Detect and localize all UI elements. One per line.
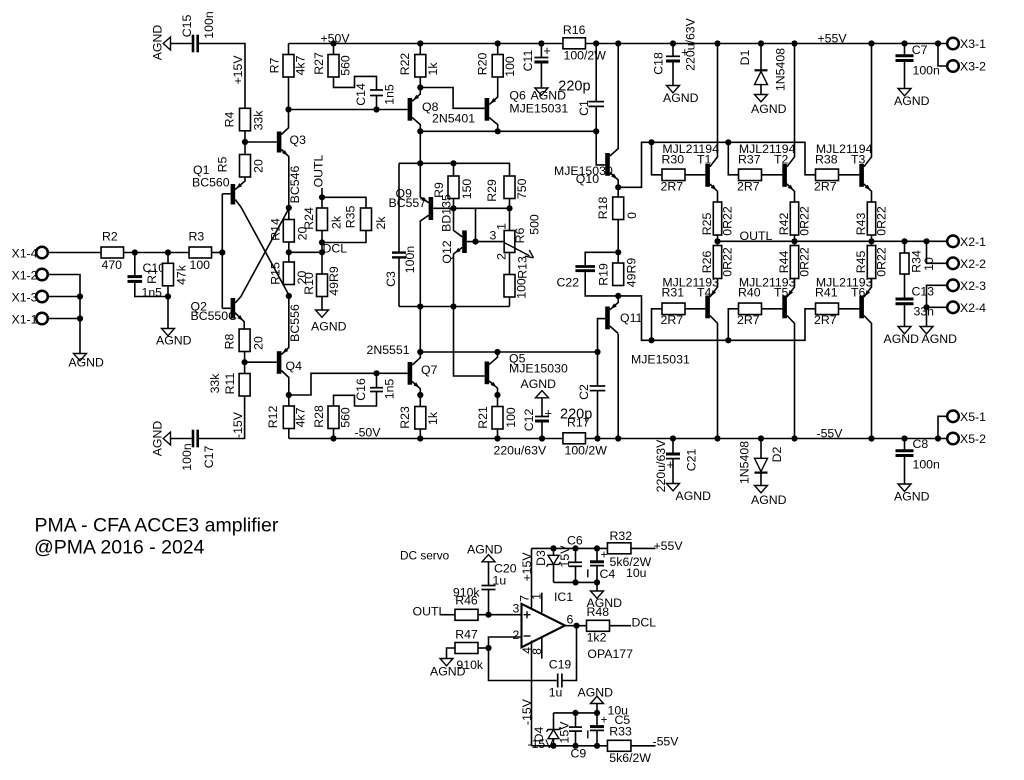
svg-text:Q11: Q11 [620,311,642,325]
junction output node [573,623,579,629]
resistor R46 [455,609,478,620]
wire upper base feed [618,142,815,187]
junction on bottom rail [494,435,500,441]
resistor R13 [504,275,515,298]
svg-text:R12: R12 [266,406,280,429]
resistor R12 [283,406,294,429]
svg-text:C4: C4 [600,567,616,581]
junction on top rail [330,40,336,46]
transistor Q9 [429,197,434,220]
ground AGND (C8) [898,484,911,491]
junction Q12 base node [472,239,478,245]
junction Q10 emitter node [615,184,621,190]
diode D2 [760,439,762,459]
svg-text:OPA177: OPA177 [587,647,633,661]
wire R34 to C13 [904,274,906,298]
svg-text:-50V: -50V [355,426,382,440]
junction VAS Q11 branch [594,349,600,355]
junction on top rail [714,40,720,46]
junction C5 top [594,710,600,716]
wire X2-4 branch [927,307,948,326]
svg-text:R21: R21 [476,406,490,429]
transistor T6 [859,296,864,319]
svg-text:X2-2: X2-2 [960,257,986,271]
wire +15V node [532,547,608,549]
wire lower base feed [618,296,815,340]
svg-text:500: 500 [527,214,541,235]
wire C21 to AGND [672,459,674,484]
svg-text:1n5: 1n5 [383,379,397,400]
svg-text:Q6: Q6 [509,89,526,103]
svg-text:1: 1 [494,223,508,230]
ground AGND (C18) [667,86,680,93]
junction servo + node [485,612,491,618]
svg-text:910k: 910k [456,658,484,672]
junction bias bottom Q12 [450,303,456,309]
transistor T3 [859,164,864,187]
svg-text:MJE15030: MJE15030 [509,362,568,376]
wire X2-2 branch [927,241,948,263]
svg-text:10u: 10u [608,703,629,717]
transistor Q5 [485,362,490,385]
svg-text:0R22: 0R22 [874,206,888,236]
transistor T5 [782,296,787,319]
svg-text:100n: 100n [913,458,941,472]
junction bias rail Q9 [417,160,423,166]
svg-text:750: 750 [515,178,529,199]
wire +55V rail right segment [585,43,947,45]
junction X2-4 tie [923,304,929,310]
svg-text:C21: C21 [684,449,698,472]
svg-text:R24: R24 [302,207,316,230]
wire Q8/Q6 emitter bus [420,130,596,132]
connector X2-1 [947,236,959,248]
junction C9 top [572,710,578,716]
junction -15V node [572,743,578,749]
junction C16 tap [373,370,379,376]
wire Q11 collector to rail [617,334,619,439]
wire VAS node bus [420,351,597,353]
ground AGND (R10) [316,310,329,317]
svg-text:AGND: AGND [521,377,557,391]
svg-text:2: 2 [494,253,508,260]
svg-text:100/2W: 100/2W [565,444,608,458]
resistor R30 (base) [662,169,685,181]
svg-text:1N5408: 1N5408 [773,48,787,91]
junction on top rail [417,40,423,46]
wire C7 to AGND [904,61,906,89]
svg-text:2R7: 2R7 [737,180,760,194]
svg-text:R35: R35 [343,206,357,229]
junction on bottom rail [330,435,336,441]
junction R7/Q3 collector node [285,106,291,112]
wire +50V rail left segment [289,43,564,45]
wire X1-4 to R2 [48,252,102,254]
junction emitter bus Q8 [417,128,423,134]
junction +15V node [594,545,600,551]
svg-text:BC550C: BC550C [191,309,238,323]
ground AGND (D2) [755,486,768,493]
junction C10 tap [132,249,138,255]
junction R14 top [286,205,292,211]
wire Q12 base to R6 wiper [476,241,504,243]
junction gnd bus X1-1 [77,315,83,321]
capacitor C6 [575,548,577,561]
resistor R15 [283,262,294,285]
svg-text:C8: C8 [913,437,929,451]
transistor Q12 [462,230,467,253]
junction Q11 emitter node [615,293,621,299]
svg-text:X1-1: X1-1 [12,312,38,326]
svg-text:+15V: +15V [520,552,534,582]
junction R1 tap [165,249,171,255]
wire AGND to C15 [171,43,194,45]
svg-text:0R22: 0R22 [797,247,811,277]
wire Q5 base [454,307,485,377]
resistor R48 [587,620,610,631]
svg-text:100/2W: 100/2W [564,49,607,63]
svg-text:AGND: AGND [663,91,699,105]
svg-text:0: 0 [625,212,639,219]
svg-text:MJE15031: MJE15031 [631,353,690,367]
transistor Q8 [408,98,413,121]
resistor R11 [239,374,250,397]
junction emitter bus Q6 [495,128,501,134]
svg-text:R13: R13 [515,256,529,279]
wire R48 to DCL [610,625,632,627]
connector X1-2 [36,269,48,281]
wire R30 to T1 base [685,174,705,176]
junction Q4 base node [242,359,248,365]
svg-text:560: 560 [338,55,352,76]
wire R40 to T5 base [762,308,783,310]
resistor R25 (emitter) [713,202,721,235]
wire R46 to op-amp + [478,614,521,616]
svg-text:T4: T4 [697,285,712,299]
svg-text:BC556: BC556 [288,304,302,342]
junction bias rail R9 [450,160,456,166]
svg-text:X3-1: X3-1 [960,37,986,51]
svg-text:Q10: Q10 [576,172,599,186]
svg-text:47k: 47k [174,264,188,285]
resistor R41 (base) [816,303,839,315]
svg-text:R46: R46 [455,594,478,608]
svg-text:15V: 15V [557,721,571,744]
junction DCL node [319,239,325,245]
svg-text:X1-4: X1-4 [12,246,38,260]
junction OUTL rail [901,238,907,244]
svg-text:100: 100 [514,278,528,299]
wire R41 to T6 base [839,308,860,310]
wire X5-1 branch [938,416,947,438]
junction DCL tee [319,249,325,255]
capacitor C13 [896,298,914,301]
transistor Q6 [485,98,490,121]
svg-text:R25: R25 [700,213,714,236]
wire C3 branch [398,163,400,252]
ground AGND (C7) [898,89,911,96]
resistor R47 [455,643,478,654]
svg-text:R16: R16 [563,23,586,37]
junction input node [219,249,225,255]
svg-text:Q7: Q7 [421,363,438,377]
svg-text:C17: C17 [202,446,216,469]
wire R27 to C14 [334,76,377,90]
wire C17 to AGND [171,438,194,440]
op-amp pin 4 [531,641,533,746]
svg-text:AGND: AGND [311,320,347,334]
resistor R18 [613,197,624,220]
op-amp plus sign [524,611,531,618]
wire C13 to AGND [904,304,906,327]
svg-text:1u: 1u [493,574,507,588]
svg-text:2N5551: 2N5551 [367,343,410,357]
capacitor C1 [595,44,597,102]
wire R1 bottom to AGND [167,297,169,329]
junction on top rail [615,40,621,46]
transistor Q3 [277,132,282,153]
junction on top rail [495,40,501,46]
svg-text:R20: R20 [475,53,489,76]
svg-text:R29: R29 [485,179,499,202]
wire -55V rail [585,438,947,440]
connector X1-4 [36,247,48,259]
junction -15V node [550,743,556,749]
svg-text:150: 150 [460,179,474,200]
connector X3-1 [947,38,959,50]
svg-text:@PMA 2016 - 2024: @PMA 2016 - 2024 [34,537,205,559]
wire C20 to R46 node [488,590,490,615]
svg-text:R23: R23 [398,406,412,429]
svg-text:1u: 1u [549,686,563,700]
junction on top rail [935,40,941,46]
wire R14-R15 [288,242,290,262]
wire C4 to AGND [596,582,598,591]
svg-text:4k7: 4k7 [293,407,307,427]
wire -15V node [532,745,608,747]
transistor Q4 [277,351,282,374]
svg-text:R32: R32 [610,529,633,543]
wire X1-3 stub [48,296,80,298]
resistor R37 (base) [739,169,762,181]
svg-text:20: 20 [251,159,265,173]
svg-text:C15: C15 [180,15,194,38]
connector X2-2 [947,258,959,270]
wire X2-3 branch [927,285,948,307]
svg-text:R47: R47 [455,627,478,641]
resistor R29 [504,176,515,199]
resistor R24 [317,208,328,231]
svg-text:R26: R26 [700,251,714,274]
resistor R32 [607,543,631,554]
junction OUTL rail [868,238,874,244]
capacitor C9 [575,713,577,727]
svg-text:100n: 100n [180,443,194,471]
junction R29 / R6 top [506,205,512,211]
svg-text:T2: T2 [774,152,789,166]
svg-text:2R7: 2R7 [737,313,760,327]
wire R3 to input node [212,252,223,254]
resistor R42 (emitter) [790,202,798,235]
wire C15 to R4 (+15V) [198,44,245,109]
svg-text:PMA - CFA ACCE3 amplifier: PMA - CFA ACCE3 amplifier [35,515,279,537]
junction on bottom rail [417,435,423,441]
svg-text:C14: C14 [354,83,368,106]
svg-text:R4: R4 [222,111,236,127]
transistor T4 [705,296,710,319]
junction C6 bottom [572,579,578,585]
svg-text:BC560: BC560 [192,176,230,190]
resistor R23 [415,407,426,430]
svg-text:33k: 33k [251,110,265,131]
svg-text:R7: R7 [267,57,281,73]
junction on top rail [791,40,797,46]
wire +15V bottom tie [554,581,598,583]
svg-text:C6: C6 [567,534,583,548]
svg-text:220u/63V: 220u/63V [654,439,668,492]
wire R24 bottom [321,231,323,253]
wire bias rail to VAS node [419,307,421,353]
svg-text:R22: R22 [398,53,412,76]
svg-text:0R22: 0R22 [797,206,811,236]
transistor Q11 [605,307,610,330]
svg-text:D2: D2 [770,446,784,462]
zener D4 [553,739,555,746]
svg-text:+: + [543,43,551,58]
resistor R28 [328,406,339,429]
resistor R2 [101,247,124,258]
wire R47 to inverting node [478,647,489,649]
svg-text:+15V: +15V [231,55,245,85]
junction on bottom rail [868,435,874,441]
junction R1/C10 bottom [165,293,171,299]
svg-text:R18: R18 [596,197,610,220]
svg-text:R45: R45 [854,251,868,274]
op-amp pin 7 [531,548,533,609]
wire Q8 collector down [419,131,421,163]
svg-text:X2-1: X2-1 [960,235,986,249]
junction servo - node [485,645,491,651]
connector X5-2 [947,433,959,445]
svg-text:20: 20 [251,336,265,350]
wire OUTL to R46 [441,614,456,616]
op-amp minus sign [524,635,531,637]
svg-text:6: 6 [567,613,574,627]
resistor R31 (base) [662,303,685,315]
wire R7 bottom to node [288,77,290,110]
svg-text:+55V: +55V [654,539,684,553]
svg-text:R42: R42 [777,213,791,236]
svg-text:T3: T3 [851,152,866,166]
wire AGND to R47 [447,648,456,659]
junction on bottom rail [594,435,600,441]
svg-text:X3-2: X3-2 [960,60,986,74]
svg-text:1n5: 1n5 [383,84,397,105]
svg-text:C12: C12 [522,409,536,432]
wire C5 to AGND [596,704,598,713]
wire inverting node to op-amp [489,637,522,648]
op-amp IC1 [522,604,566,648]
wire X1-1 stub [48,318,80,320]
junction on top rail [758,40,764,46]
wire R31 to T4 base [685,308,705,310]
ground AGND (X1) [74,354,87,361]
resistor R35 [361,208,372,231]
junction on bottom rail [935,435,941,441]
wire C14 to Q8 base wire [376,96,378,110]
svg-text:2R7: 2R7 [814,180,837,194]
wire -50V rail [289,438,563,440]
wire R8 to R11 [244,352,246,374]
junction gnd bus X1-3 [77,293,83,299]
svg-text:100n: 100n [913,64,941,78]
resistor R43 (emitter) [867,202,875,235]
junction emitter bus C1 [593,128,599,134]
junction C4 bottom [594,579,600,585]
svg-text:49R9: 49R9 [327,266,341,296]
svg-text:AGND: AGND [922,332,958,346]
capacitor C7 [904,44,906,55]
resistor R17 [563,433,586,444]
svg-text:+: + [545,406,553,421]
capacitor C12 [541,398,543,416]
svg-text:220u/63V: 220u/63V [494,444,547,458]
svg-text:R2: R2 [102,230,118,244]
connector X5-1 [947,411,959,423]
svg-text:3: 3 [513,601,520,615]
wire -15V top tie [554,712,598,714]
junction Q4 collector node [286,392,292,398]
svg-text:0R22: 0R22 [720,247,734,277]
wire R2 to R3 [124,252,190,254]
ground AGND (C4) [591,591,604,598]
junction Q7 collector node [417,349,423,355]
svg-text:C1: C1 [577,100,591,116]
resistor R38 (base) [816,169,839,181]
wire T2 base branch [728,142,738,175]
capacitor C21 [672,439,674,453]
svg-text:C19: C19 [549,658,572,672]
resistor R9 [448,176,459,199]
svg-text:AGND: AGND [467,543,503,557]
junction lower feed T4 [648,337,654,343]
junction on bottom rail [714,435,720,441]
resistor R21 [492,407,503,430]
svg-text:1k: 1k [426,62,440,76]
svg-text:OUTL: OUTL [312,154,326,187]
svg-text:4k7: 4k7 [293,55,307,75]
svg-text:AGND: AGND [150,25,164,61]
transistor Q10 [605,153,610,176]
svg-text:1n5: 1n5 [142,285,163,299]
junction on bottom rail [670,435,676,441]
svg-text:0R22: 0R22 [874,247,888,277]
resistor R8 [239,329,250,352]
junction -15V node [594,743,600,749]
svg-text:-15V: -15V [231,411,245,438]
svg-text:BC557: BC557 [389,196,427,210]
svg-text:15V: 15V [558,545,572,568]
wire C16 to R28 [334,392,377,407]
capacitor C17 [192,430,195,448]
svg-text:8: 8 [530,648,544,655]
junction on top rail [670,40,676,46]
junction OUTL rail [923,238,929,244]
wire R42 to OUTL [794,235,796,241]
svg-text:X2-4: X2-4 [960,301,986,315]
junction on bottom rail [615,435,621,441]
svg-text:R19: R19 [596,263,610,286]
